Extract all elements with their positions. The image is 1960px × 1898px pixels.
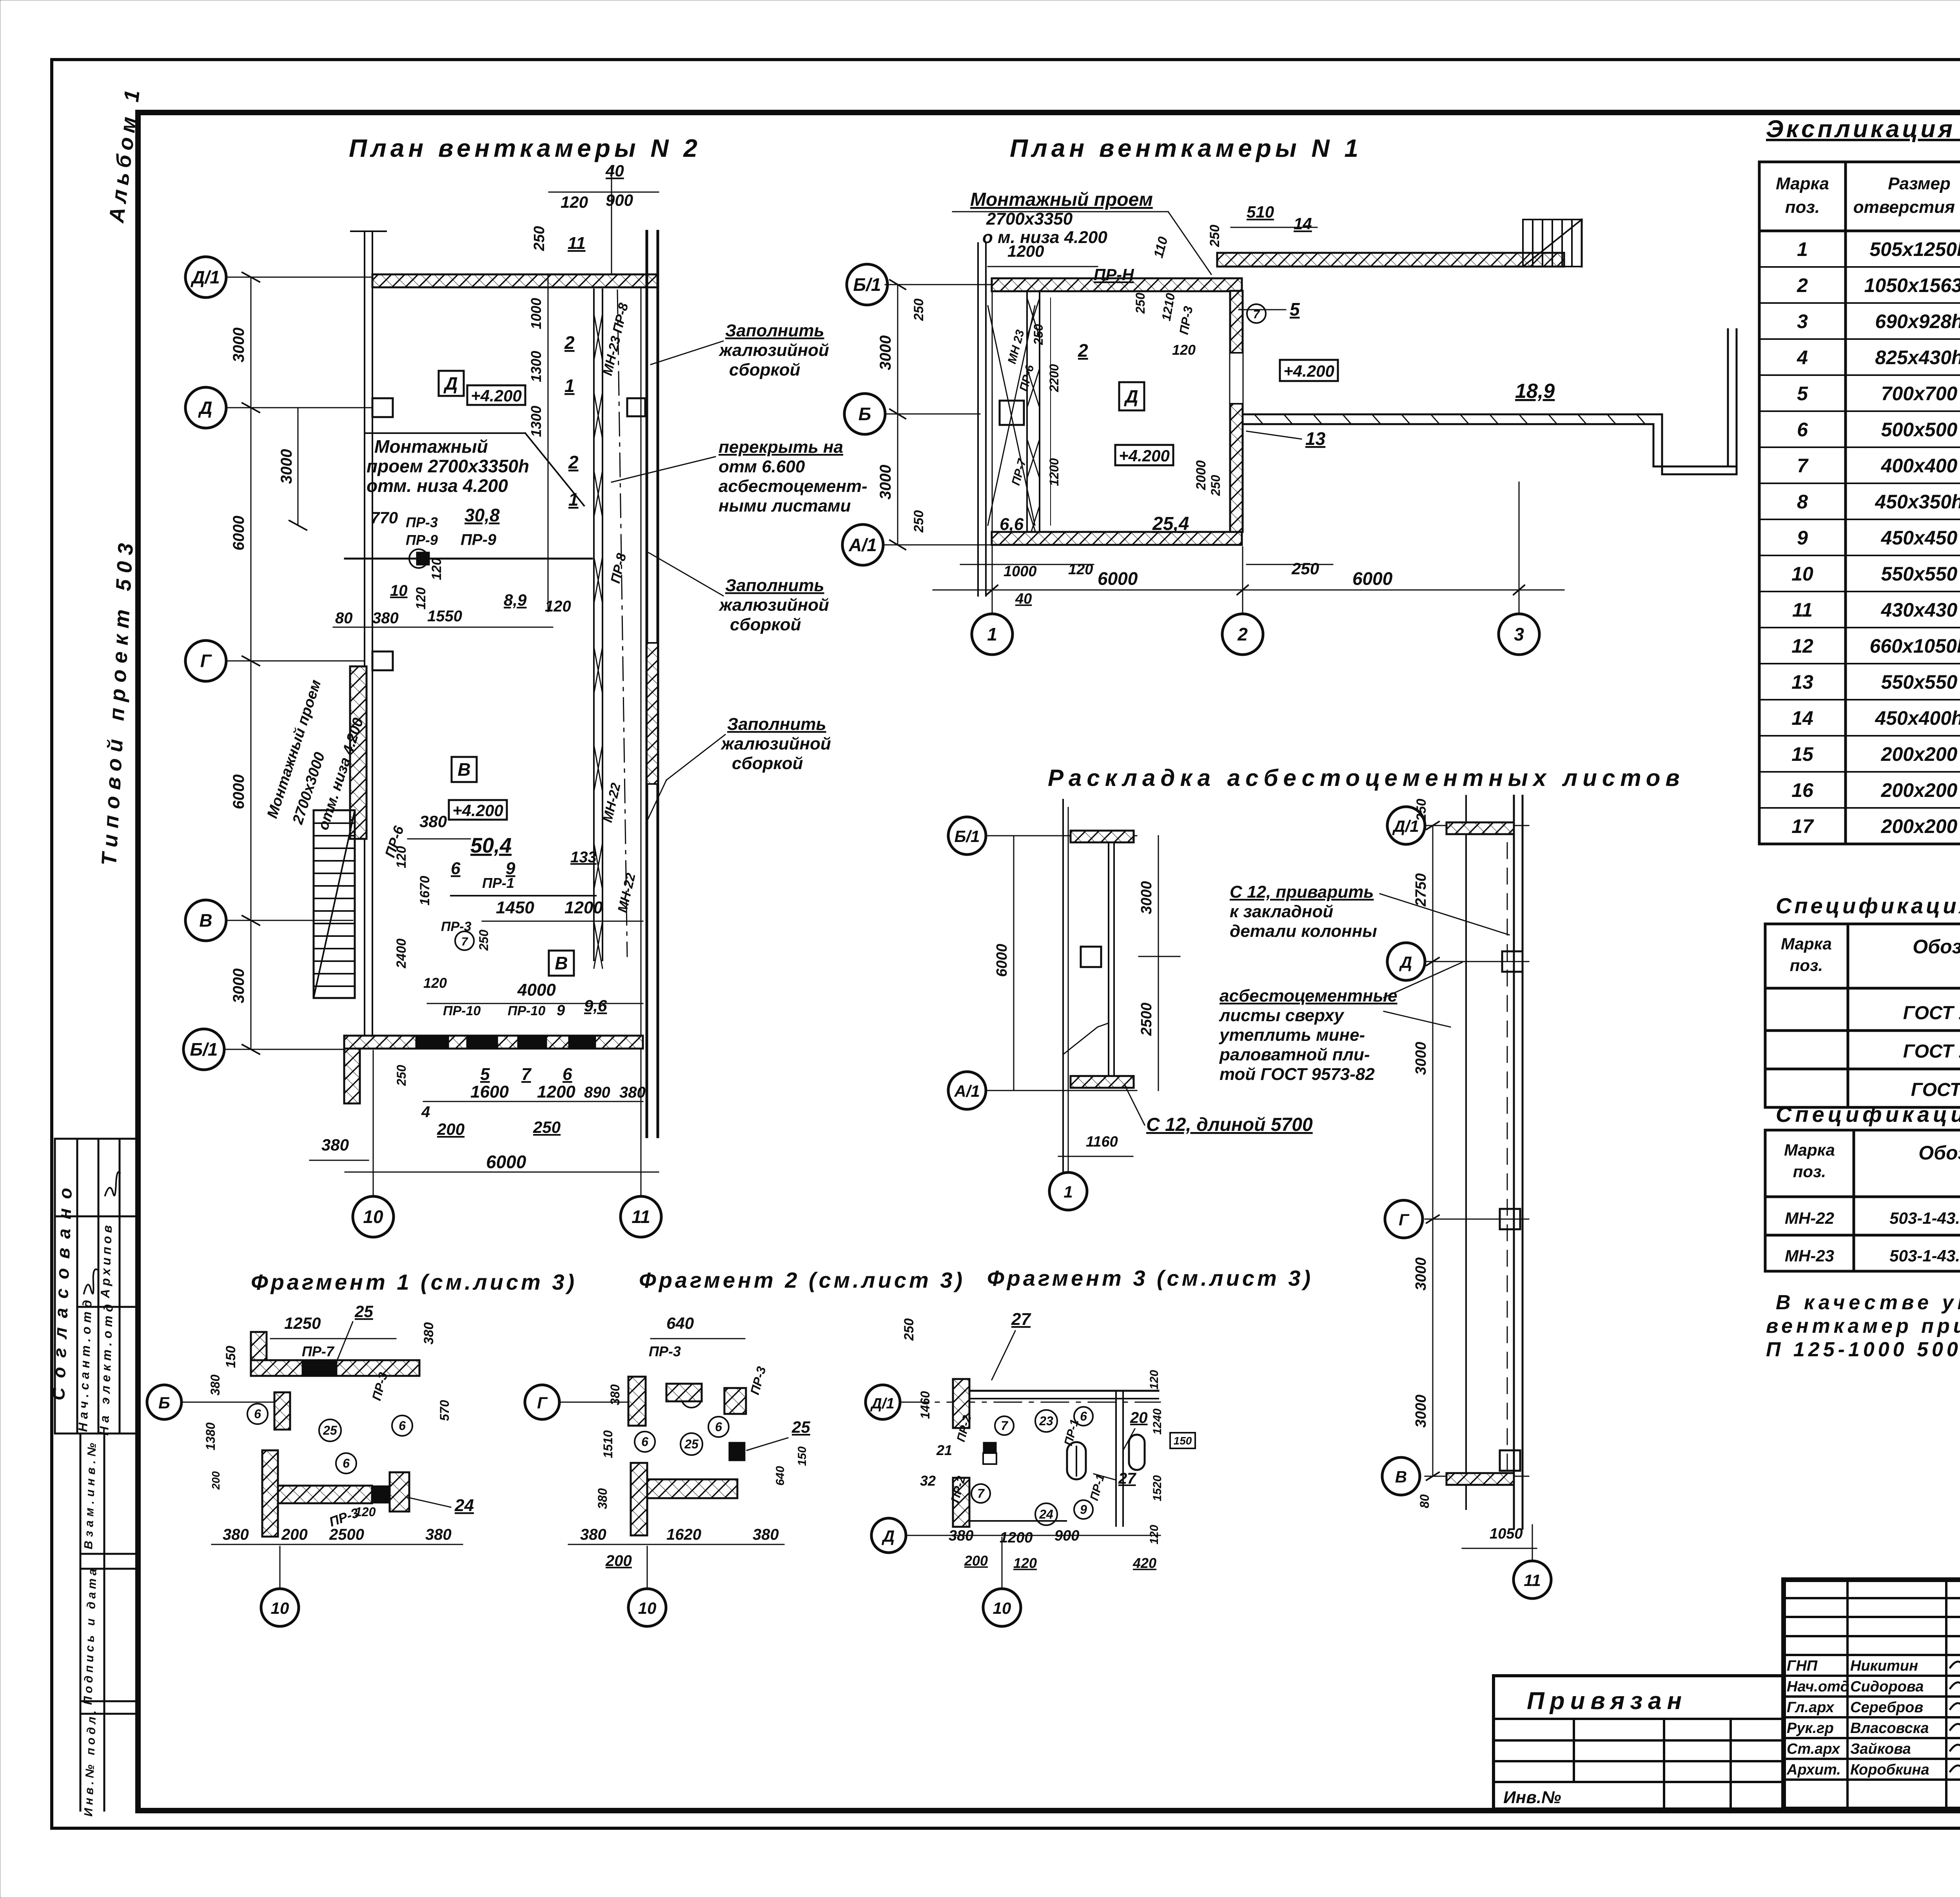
svg-text:7: 7	[1797, 455, 1809, 477]
svg-text:505х1250h: 505х1250h	[1869, 238, 1960, 260]
svg-text:50,4: 50,4	[470, 834, 512, 857]
svg-text:1: 1	[1797, 238, 1808, 260]
svg-text:570: 570	[437, 1400, 452, 1421]
svg-text:3000: 3000	[877, 336, 894, 370]
svg-text:500х500: 500х500	[1881, 419, 1958, 441]
svg-text:1200: 1200	[1000, 1530, 1033, 1546]
svg-text:асбестоцементные: асбестоцементные	[1220, 986, 1397, 1005]
svg-text:1620: 1620	[666, 1526, 701, 1543]
svg-text:13: 13	[1791, 671, 1813, 693]
left dim chain plan1	[890, 280, 906, 550]
svg-text:690х928h: 690х928h	[1875, 310, 1960, 332]
svg-text:900: 900	[606, 191, 633, 209]
svg-text:120: 120	[394, 846, 409, 868]
sheet edge double line raskladka left	[1109, 842, 1114, 1076]
svg-text:1510: 1510	[601, 1430, 615, 1458]
svg-text:380: 380	[372, 610, 399, 627]
svg-text:27: 27	[1011, 1310, 1031, 1329]
svg-text:12: 12	[1791, 635, 1813, 657]
svg-text:отверстия мм: отверстия мм	[1853, 198, 1960, 217]
fragment 3 stadium embeds	[1067, 1442, 1086, 1479]
svg-text:1200: 1200	[1047, 458, 1061, 486]
cross braces in inner wall	[594, 314, 603, 968]
svg-text:250: 250	[1207, 225, 1222, 247]
axis circle Д/1 raskladka right	[1387, 807, 1425, 844]
svg-text:380: 380	[595, 1488, 610, 1509]
signature squiggle	[105, 1172, 120, 1196]
svg-text:6000: 6000	[1352, 568, 1393, 589]
svg-text:6: 6	[641, 1435, 648, 1449]
inner hatched wall with braces plan1	[1027, 291, 1040, 545]
svg-text:25: 25	[684, 1437, 699, 1451]
svg-text:о м. низа 4.200: о м. низа 4.200	[982, 228, 1107, 247]
svg-text:8: 8	[1797, 491, 1808, 513]
svg-text:420: 420	[1132, 1555, 1156, 1571]
svg-text:2000: 2000	[1194, 460, 1209, 490]
svg-text:Б: Б	[158, 1394, 170, 1412]
svg-text:250: 250	[477, 929, 491, 951]
svg-text:250: 250	[911, 299, 926, 321]
svg-text:503-1-43.86-КЖИ-МН-22: 503-1-43.86-КЖИ-МН-22	[1889, 1209, 1960, 1227]
svg-text:2: 2	[1797, 274, 1808, 296]
svg-text:Фрагмент 3 (см.лист 3): Фрагмент 3 (см.лист 3)	[987, 1266, 1313, 1290]
svg-text:ПР-9: ПР-9	[461, 531, 497, 548]
svg-text:550х550: 550х550	[1881, 563, 1958, 585]
svg-text:3000: 3000	[1413, 1042, 1429, 1075]
svg-text:Д: Д	[882, 1527, 895, 1545]
svg-text:380: 380	[608, 1384, 622, 1405]
bottom dim chain plan2	[423, 1101, 643, 1102]
svg-text:Заполнить: Заполнить	[725, 321, 824, 340]
corner pier below Б/1	[344, 1049, 360, 1103]
fragment 1 mid assembly	[262, 1450, 278, 1537]
axis circle Б/1 plan1	[847, 264, 887, 305]
svg-text:Г: Г	[1399, 1210, 1410, 1229]
svg-text:Д: Д	[443, 373, 457, 394]
fragment 3: axis circle Д/1	[866, 1385, 900, 1419]
svg-text:200х200: 200х200	[1881, 779, 1958, 801]
svg-text:21: 21	[936, 1442, 952, 1458]
svg-text:6: 6	[451, 859, 461, 878]
approval stamp table Согласовано	[55, 1139, 138, 1433]
svg-text:1200: 1200	[537, 1082, 575, 1101]
svg-text:32: 32	[920, 1473, 936, 1489]
svg-text:перекрыть на: перекрыть на	[719, 437, 843, 457]
axis circle Д raskladka right	[1387, 943, 1425, 980]
svg-text:5: 5	[1797, 383, 1808, 405]
svg-text:18,9: 18,9	[1515, 380, 1555, 403]
dim chain raskladka right	[1432, 826, 1434, 1476]
diagonal brace in duct plan1	[988, 306, 1035, 525]
svg-text:24: 24	[1039, 1507, 1053, 1521]
svg-text:2: 2	[1078, 340, 1088, 361]
svg-text:сборкой: сборкой	[730, 615, 801, 634]
svg-text:400х400: 400х400	[1881, 455, 1958, 477]
fragment 3 walls	[953, 1379, 969, 1428]
svg-text:1200: 1200	[1007, 242, 1044, 260]
svg-text:Размер: Размер	[1888, 174, 1951, 193]
axis circle Б/1	[183, 1029, 224, 1070]
svg-text:листы сверху: листы сверху	[1219, 1006, 1345, 1025]
embed square at Д	[1502, 951, 1523, 972]
svg-text:380: 380	[223, 1526, 249, 1543]
svg-text:1450: 1450	[496, 898, 534, 917]
svg-text:1600: 1600	[470, 1082, 509, 1101]
svg-text:120: 120	[1172, 342, 1196, 358]
svg-text:Д/1: Д/1	[190, 267, 220, 287]
svg-text:2400: 2400	[394, 938, 409, 969]
svg-text:380: 380	[321, 1136, 349, 1154]
svg-text:900: 900	[1054, 1528, 1079, 1544]
svg-text:Монтажный проем: Монтажный проем	[970, 189, 1153, 210]
svg-text:1: 1	[987, 624, 997, 644]
svg-text:150: 150	[1174, 1435, 1192, 1447]
polyline sheet cut raskladka left	[1063, 1023, 1109, 1054]
svg-text:150: 150	[223, 1346, 238, 1368]
svg-text:ными листами: ными листами	[719, 496, 851, 515]
svg-text:250: 250	[1209, 475, 1223, 496]
fragment 2 mid walls	[631, 1463, 647, 1535]
svg-text:2750: 2750	[1413, 873, 1429, 907]
svg-text:Марка: Марка	[1776, 174, 1829, 193]
column mark on outer wall at Д	[627, 398, 645, 416]
title block main frame	[1784, 1580, 1960, 1809]
stair top right plan1	[1523, 220, 1582, 267]
svg-text:1380: 1380	[203, 1423, 218, 1450]
svg-text:асбестоцемент-: асбестоцемент-	[719, 477, 867, 496]
svg-text:А/1: А/1	[848, 535, 877, 555]
svg-text:380: 380	[580, 1526, 606, 1543]
elevation +4.200 box	[467, 385, 525, 405]
svg-text:В: В	[1395, 1468, 1407, 1486]
svg-text:1: 1	[1063, 1183, 1073, 1201]
svg-text:3: 3	[1514, 624, 1524, 644]
svg-text:40: 40	[605, 161, 624, 180]
svg-text:План венткамеры N 1: План венткамеры N 1	[1010, 134, 1362, 162]
top beam (hatched) raskladka right	[1446, 822, 1514, 834]
bottom beam (hatched) raskladka right	[1446, 1473, 1514, 1485]
svg-text:80: 80	[1417, 1494, 1432, 1508]
svg-text:10: 10	[1791, 563, 1813, 585]
svg-text:ПР-Н: ПР-Н	[1094, 265, 1134, 284]
svg-text:2: 2	[1237, 624, 1248, 644]
svg-text:Рук.гр: Рук.гр	[1787, 1720, 1834, 1737]
svg-text:550х550: 550х550	[1881, 671, 1958, 693]
svg-text:8,9: 8,9	[504, 591, 527, 609]
svg-text:венткамер приняты минералова: венткамер приняты минераловатные плиты б…	[1766, 1315, 1960, 1337]
svg-text:6000: 6000	[1098, 568, 1138, 589]
left dimension chain plan2	[242, 272, 307, 1054]
overall dim 6000 plan2	[345, 1172, 659, 1173]
svg-text:890: 890	[584, 1084, 610, 1101]
svg-text:Фрагмент 1 (см.лист 3): Фрагмент 1 (см.лист 3)	[251, 1270, 577, 1294]
svg-text:В качестве утеплителя воздух: В качестве утеплителя воздухозаборной ча…	[1776, 1291, 1960, 1314]
svg-text:В: В	[555, 953, 568, 973]
svg-text:40: 40	[1015, 591, 1032, 607]
svg-text:250: 250	[1291, 559, 1319, 578]
top wall on axis Д/1 (hatched)	[372, 274, 658, 287]
svg-text:1: 1	[564, 376, 575, 396]
embed square at Г	[1500, 1209, 1520, 1229]
svg-text:120: 120	[1148, 1370, 1161, 1390]
svg-text:6: 6	[399, 1419, 406, 1433]
svg-text:1460: 1460	[918, 1391, 932, 1419]
svg-text:2500: 2500	[329, 1526, 364, 1543]
axis circle Г	[185, 641, 226, 681]
axis circle 3 plan1	[1499, 614, 1539, 655]
svg-text:13: 13	[1305, 428, 1326, 449]
svg-text:сборкой: сборкой	[732, 754, 803, 773]
svg-text:1300: 1300	[528, 406, 544, 437]
holes table (start) grid	[1759, 162, 1960, 844]
svg-text:9: 9	[1080, 1502, 1087, 1517]
svg-text:Б/1: Б/1	[190, 1039, 218, 1060]
fragment 1 bottom dims	[212, 1544, 463, 1545]
svg-text:380: 380	[425, 1526, 452, 1543]
svg-text:14: 14	[1294, 214, 1312, 233]
svg-text:6,6: 6,6	[1000, 515, 1024, 534]
svg-text:200х200: 200х200	[1881, 743, 1958, 765]
svg-text:640: 640	[666, 1314, 694, 1332]
svg-text:7: 7	[1001, 1419, 1009, 1433]
fragment 1: axis circle Б	[147, 1385, 181, 1419]
svg-text:20: 20	[1130, 1409, 1148, 1426]
svg-text:Д: Д	[198, 397, 212, 418]
column mark at Г	[372, 651, 393, 670]
svg-text:Б/1: Б/1	[955, 827, 980, 846]
svg-text:План венткамеры N 2: План венткамеры N 2	[349, 134, 701, 162]
svg-text:200: 200	[964, 1553, 988, 1569]
axis circle 1 plan1	[972, 614, 1013, 655]
svg-text:6: 6	[1797, 419, 1808, 441]
svg-text:ПР-9: ПР-9	[406, 532, 438, 548]
svg-text:В: В	[457, 759, 470, 780]
axis lines plan1	[885, 285, 1519, 614]
svg-text:поз.: поз.	[1785, 198, 1820, 217]
svg-text:Раскладка асбестоцементных: Раскладка асбестоцементных листов	[1048, 765, 1685, 791]
svg-text:7: 7	[521, 1065, 532, 1084]
svg-text:11: 11	[632, 1207, 650, 1227]
svg-text:250: 250	[531, 226, 548, 251]
attachment table Привязан	[1494, 1676, 1784, 1809]
fragment 2 top walls	[628, 1377, 646, 1426]
fragment 3: axis circle Д	[871, 1518, 906, 1553]
fragment 2 circle 10	[628, 1589, 666, 1626]
svg-text:4000: 4000	[517, 980, 556, 1000]
fragment 2: axis circle Г	[525, 1385, 559, 1419]
black louvre segments in bottom wall	[416, 1037, 596, 1047]
svg-text:120: 120	[355, 1505, 376, 1519]
svg-text:3000: 3000	[1138, 881, 1155, 915]
svg-text:+4.200: +4.200	[1283, 362, 1334, 380]
svg-text:Монтажный: Монтажный	[374, 436, 488, 457]
axis circle 10	[353, 1196, 394, 1237]
svg-text:7: 7	[977, 1486, 985, 1501]
top wall Б/1 (hatched) plan1	[992, 278, 1242, 291]
fragment 2 bottom dims	[568, 1544, 784, 1545]
svg-text:4: 4	[421, 1103, 430, 1121]
svg-text:380: 380	[619, 1084, 646, 1101]
svg-text:В: В	[199, 910, 212, 931]
svg-text:25: 25	[323, 1423, 338, 1437]
svg-text:200: 200	[281, 1526, 308, 1543]
svg-text:6: 6	[563, 1065, 572, 1084]
svg-text:6: 6	[715, 1420, 722, 1434]
svg-text:380: 380	[208, 1374, 222, 1395]
svg-text:С 12, приварить: С 12, приварить	[1230, 882, 1374, 902]
axis circle Д	[185, 387, 226, 428]
svg-text:3000: 3000	[877, 465, 894, 500]
svg-text:250: 250	[911, 510, 926, 533]
svg-text:Зайкова: Зайкова	[1850, 1741, 1911, 1757]
svg-text:сборкой: сборкой	[729, 360, 800, 379]
svg-text:120: 120	[429, 558, 444, 580]
svg-text:1250: 1250	[284, 1314, 321, 1332]
svg-text:6000: 6000	[486, 1152, 526, 1172]
svg-text:15: 15	[1791, 743, 1814, 765]
axis circle А/1 raskladka	[948, 1072, 986, 1109]
long column line raskladka right	[1465, 796, 1467, 1509]
svg-text:120: 120	[1148, 1525, 1161, 1544]
small black marker ПР-3	[416, 552, 430, 565]
svg-text:поз.: поз.	[1790, 956, 1823, 974]
room mark В box 2	[549, 951, 574, 976]
sheet edge double line raskladka right	[1514, 796, 1523, 1529]
svg-text:120: 120	[561, 193, 588, 211]
svg-text:640: 640	[774, 1466, 787, 1486]
svg-text:11: 11	[568, 234, 586, 253]
column line raskladka left	[1062, 800, 1064, 1172]
svg-text:250: 250	[1133, 292, 1147, 314]
svg-text:200: 200	[437, 1120, 465, 1138]
svg-text:ГОСТ 18 124-75*: ГОСТ 18 124-75*	[1903, 1003, 1960, 1023]
dash-dot jalousie axis	[617, 290, 627, 956]
dims raskladka left	[1158, 836, 1159, 1091]
svg-text:той ГОСТ 9573-82: той ГОСТ 9573-82	[1220, 1065, 1375, 1084]
svg-text:120: 120	[1068, 561, 1093, 578]
svg-text:Привязан: Привязан	[1527, 1688, 1687, 1715]
svg-text:+4.200: +4.200	[1119, 446, 1170, 465]
svg-text:2: 2	[564, 332, 575, 353]
hatched lower outer wall part	[647, 643, 658, 784]
svg-text:П 125-1000 500.50 ГОСТ 95: П 125-1000 500.50 ГОСТ 9573-82- 1,34 м³	[1766, 1338, 1960, 1361]
hatch ticks on corridor wall	[1254, 414, 1645, 424]
svg-text:510: 510	[1247, 203, 1274, 221]
bottom wall А/1 (hatched) plan1	[992, 532, 1242, 545]
svg-text:24: 24	[454, 1496, 474, 1515]
axis lines raskladka right	[1425, 826, 1529, 1476]
svg-text:жалюзийной: жалюзийной	[720, 734, 831, 753]
svg-text:поз.: поз.	[1793, 1162, 1826, 1181]
svg-text:Марка: Марка	[1781, 934, 1832, 953]
svg-text:80: 80	[335, 610, 353, 627]
svg-text:Г: Г	[200, 651, 212, 671]
svg-text:200х200: 200х200	[1881, 815, 1958, 837]
bottom wall on axis Б/1 (hatched)	[344, 1036, 643, 1049]
svg-text:250: 250	[902, 1318, 916, 1341]
svg-text:250: 250	[1031, 324, 1045, 345]
svg-text:Заполнить: Заполнить	[725, 576, 824, 595]
svg-text:Спецификация закладных рамок: Спецификация закладных рамок	[1776, 1102, 1960, 1127]
svg-text:ГОСТ 8240-72*: ГОСТ 8240-72*	[1911, 1080, 1960, 1100]
elevation +4.200 box right plan1	[1280, 360, 1338, 381]
svg-text:9: 9	[1797, 527, 1808, 549]
svg-text:Б/1: Б/1	[853, 274, 881, 295]
signature squiggle	[84, 1269, 98, 1294]
axis lines raskladka left	[986, 807, 1137, 1172]
svg-text:11: 11	[1792, 599, 1813, 621]
axis circle Д/1	[185, 257, 226, 298]
svg-text:утеплить мине-: утеплить мине-	[1219, 1025, 1365, 1045]
svg-text:250: 250	[533, 1118, 561, 1136]
svg-text:А/1: А/1	[954, 1082, 980, 1100]
svg-text:Д: Д	[1123, 386, 1138, 406]
svg-text:Обозначение: Обозначение	[1918, 1142, 1960, 1164]
fragment 3 label circles	[995, 1416, 1014, 1435]
svg-text:3: 3	[1797, 310, 1808, 332]
axis circle 2 plan1	[1222, 614, 1263, 655]
svg-text:ПР-10: ПР-10	[508, 1003, 545, 1018]
svg-text:Марка: Марка	[1784, 1141, 1835, 1159]
svg-text:ПР-7: ПР-7	[302, 1343, 335, 1359]
axis circle В	[185, 900, 226, 941]
svg-text:Д: Д	[1399, 953, 1412, 971]
axis circle А/1 plan1	[842, 524, 883, 565]
svg-text:25,4: 25,4	[1152, 514, 1189, 534]
svg-text:3000: 3000	[1413, 1395, 1429, 1428]
svg-text:660х1050h: 660х1050h	[1869, 635, 1960, 657]
svg-text:770: 770	[370, 508, 398, 527]
svg-text:1670: 1670	[417, 876, 432, 905]
svg-text:1550: 1550	[427, 608, 462, 625]
right corridor walls plan1	[1243, 220, 1737, 474]
svg-text:ПР-10: ПР-10	[443, 1003, 481, 1018]
svg-text:проем 2700х3350h: проем 2700х3350h	[367, 456, 529, 476]
hatched pier left of Г-В	[350, 666, 367, 839]
svg-text:700х700: 700х700	[1881, 383, 1958, 405]
svg-text:27: 27	[1118, 1470, 1136, 1487]
opening in right wall	[1230, 353, 1243, 404]
bottom dim chain plan1	[933, 590, 1564, 591]
axis circle 11	[621, 1196, 661, 1237]
svg-text:380: 380	[753, 1526, 779, 1543]
svg-text:Д/1: Д/1	[870, 1395, 894, 1412]
svg-text:380: 380	[949, 1528, 973, 1544]
svg-text:6: 6	[254, 1407, 261, 1421]
svg-text:430х430: 430х430	[1881, 599, 1958, 621]
svg-text:1160: 1160	[1086, 1134, 1118, 1150]
stair with rungs	[314, 810, 355, 998]
svg-text:16: 16	[1791, 779, 1814, 801]
bottom beam (hatched) raskladka left	[1071, 1076, 1134, 1088]
svg-text:Фрагмент 2 (см.лист 3): Фрагмент 2 (см.лист 3)	[639, 1268, 965, 1292]
svg-text:120: 120	[1013, 1555, 1037, 1571]
svg-text:к закладной: к закладной	[1230, 902, 1333, 921]
svg-text:4: 4	[1797, 347, 1808, 368]
svg-text:3000: 3000	[230, 328, 247, 363]
svg-text:14: 14	[1791, 707, 1813, 729]
svg-text:Архит.: Архит.	[1786, 1762, 1841, 1778]
dim line 80 380 1550	[333, 627, 553, 628]
svg-text:жалюзийной: жалюзийной	[719, 341, 829, 360]
svg-text:10: 10	[390, 582, 408, 599]
axis circle В raskladka right	[1382, 1457, 1420, 1495]
svg-text:+4.200: +4.200	[452, 801, 503, 820]
axis lines plan2	[226, 277, 647, 1196]
svg-text:120: 120	[414, 587, 428, 610]
axis circle Б/1 raskladka	[948, 817, 986, 855]
svg-text:6000: 6000	[230, 516, 247, 551]
